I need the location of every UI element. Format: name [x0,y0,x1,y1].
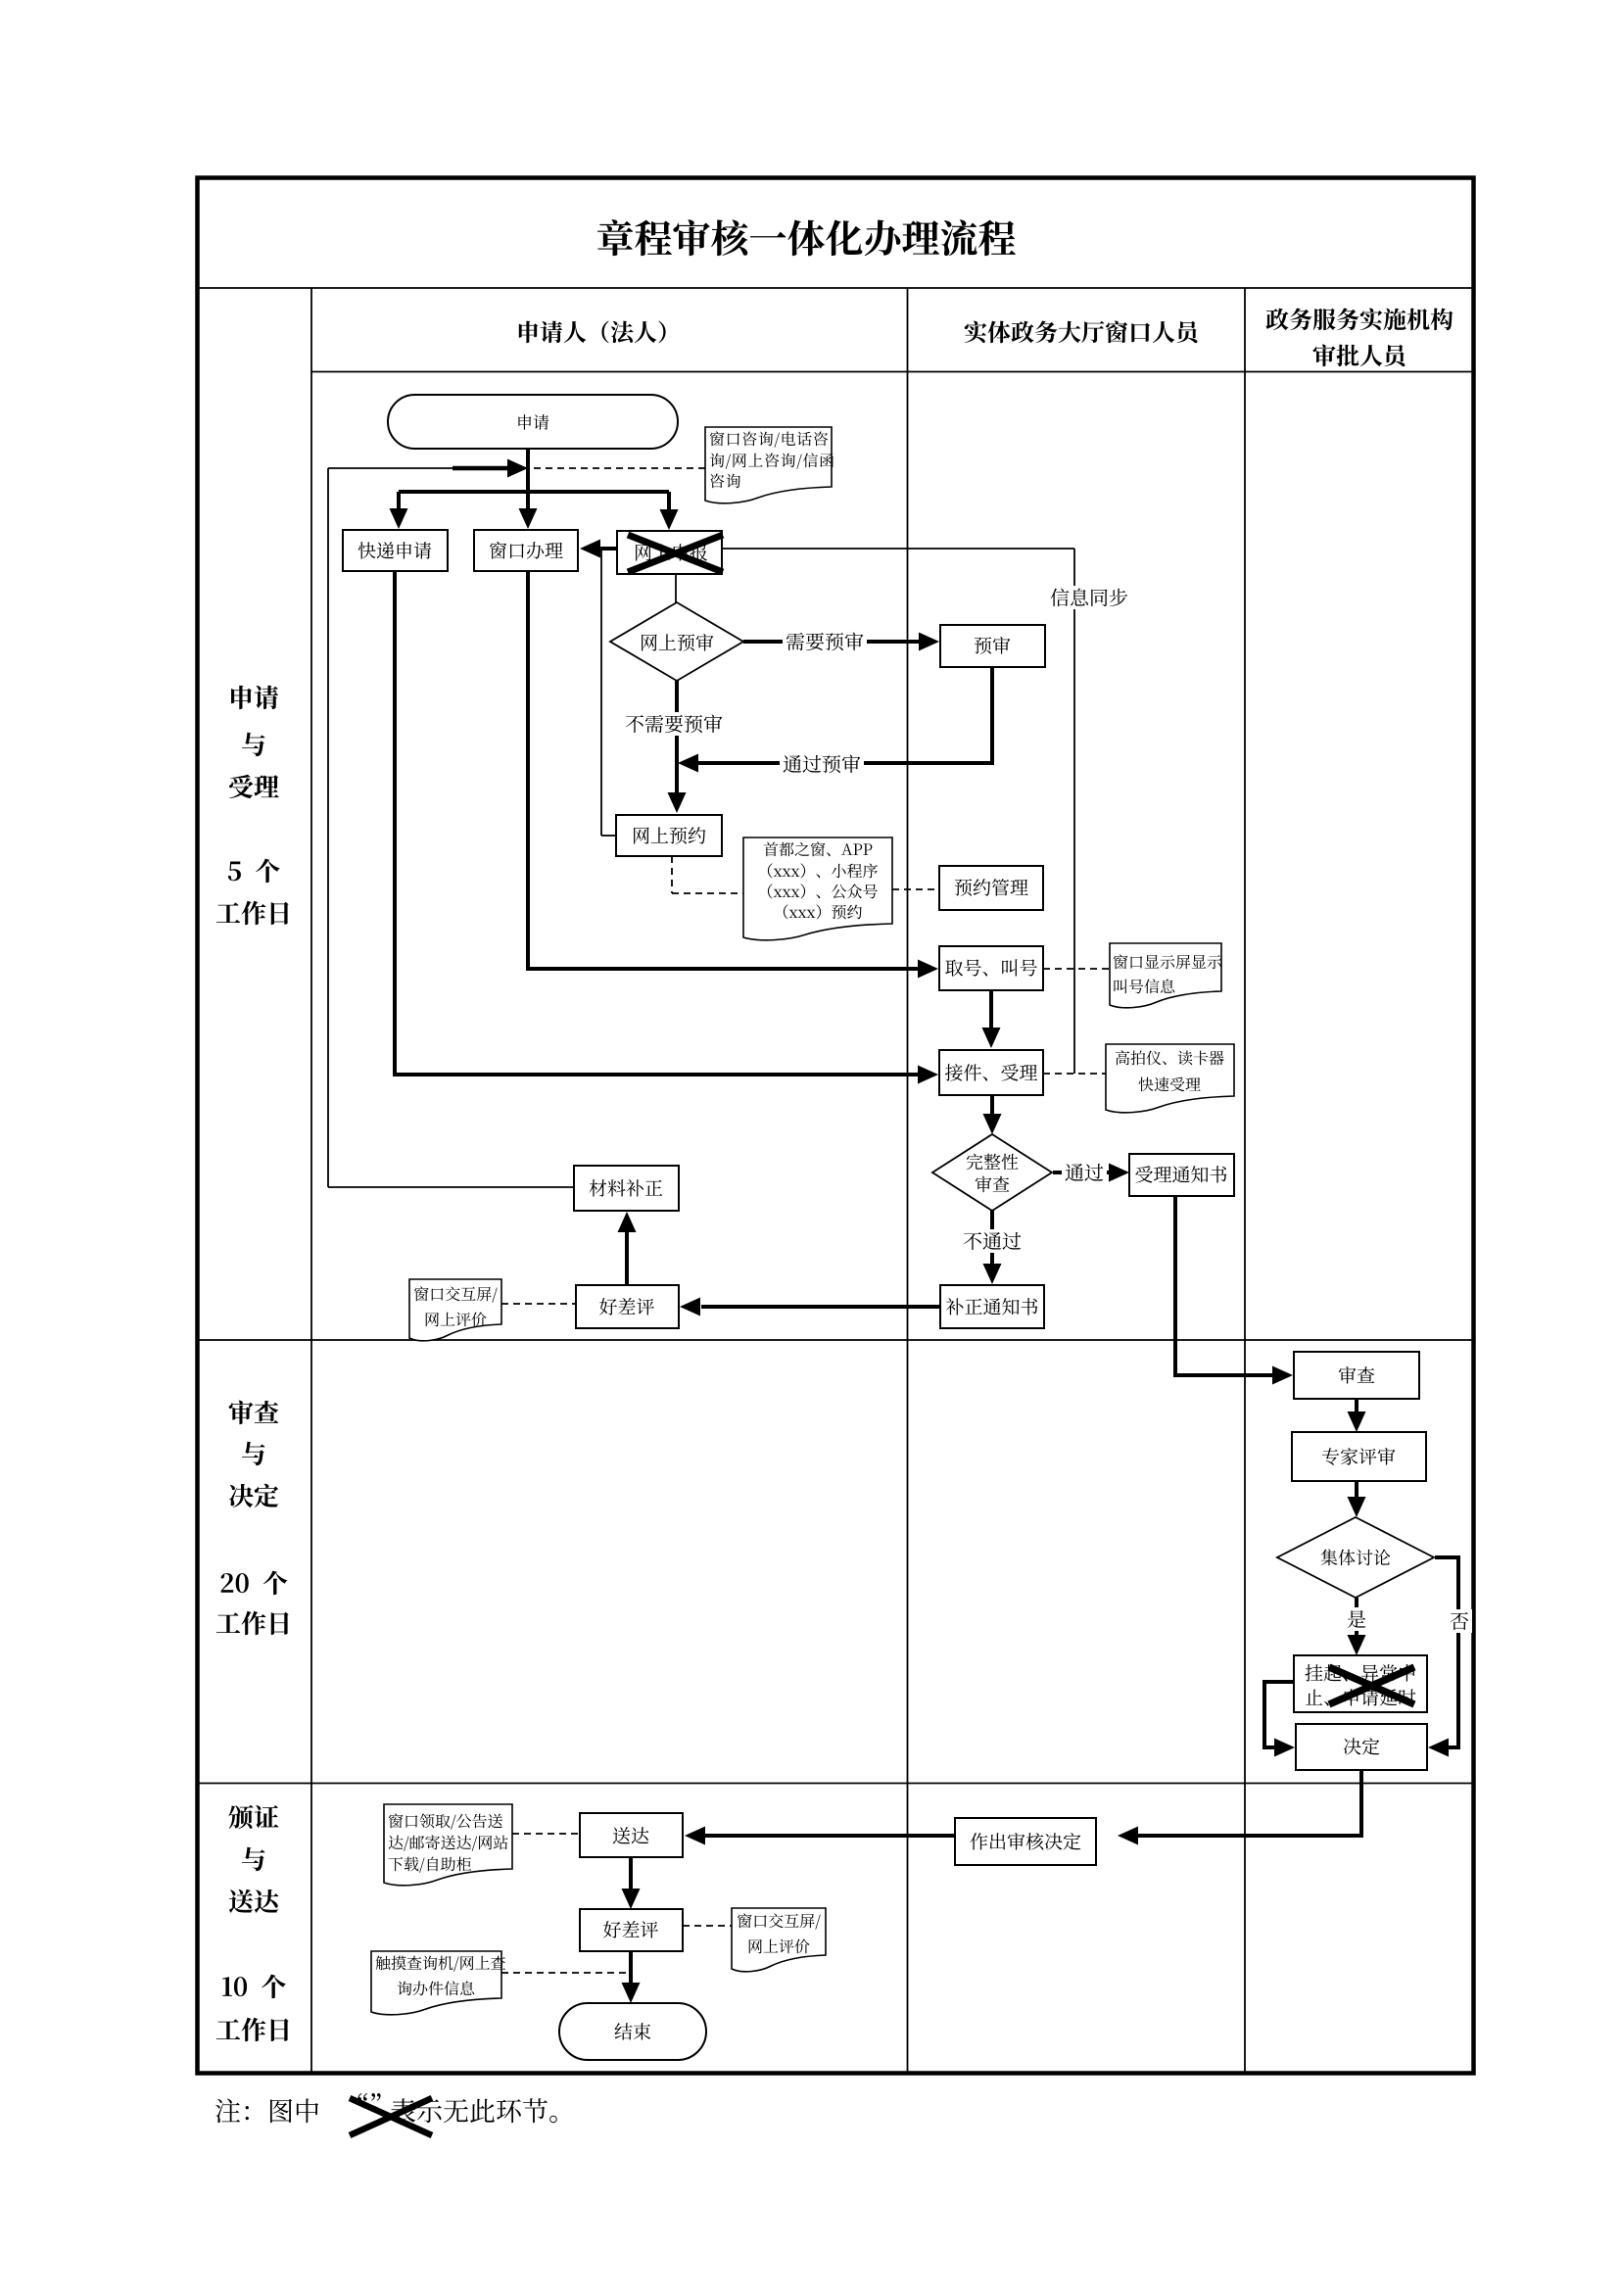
flow queue to accept [989,990,993,1028]
loop wire vertical [327,468,329,1187]
dashed booking wire to callout [672,892,743,894]
dashed wire to consult callout [534,467,705,469]
X cross over 网上申报 [628,535,723,572]
process 快递申请 [343,530,448,571]
lane boundary 2 [196,1783,1474,1785]
flow discuss yes [1355,1598,1358,1635]
flow need-precheck [743,640,919,644]
process 审查 [1294,1352,1419,1399]
flow eval to material-fix [625,1232,629,1285]
callout 窗口交互屏/网上评价 2 [732,1908,826,1972]
callout 窗口显示屏显示叫号信息 [1110,943,1221,1008]
process 受理通知书 [1129,1154,1234,1196]
callout 高拍仪、读卡器快速受理 [1106,1044,1234,1113]
flow declare to window [600,547,617,550]
process 好差评 2 [580,1909,683,1951]
flow drop to express [397,492,401,508]
flow accept to check [990,1095,994,1114]
dashed booking wire down [671,856,673,893]
X cross over 挂起 box [1329,1667,1414,1704]
decision 集体讨论 [1277,1517,1434,1598]
process 作出审核决定 [955,1818,1096,1865]
process 决定 [1296,1724,1427,1770]
end node 结束 [559,2003,706,2060]
loop return arrow shaft [453,466,507,471]
dashed accept to callout [1043,1073,1106,1075]
flow suspend loop [1264,1682,1294,1747]
flow drop to declare [667,492,671,509]
flow correction to eval [701,1305,939,1309]
flow apply down [526,449,530,508]
flow check pass [1053,1171,1109,1174]
flow acceptance to review [1175,1196,1272,1375]
loop wire to material-fix box [328,1186,574,1188]
process 材料补正 [574,1166,679,1211]
phase column divider [310,288,312,2073]
process 好差评 [576,1285,679,1328]
callout 窗口咨询/电话咨询/网上咨询/信函咨询 [705,427,832,503]
column divider 2-3 [1244,288,1246,2073]
start node 申请 [388,395,678,449]
process 窗口办理 [474,530,578,571]
process 挂起、异常中止、申请延时 (crossed out) [1294,1655,1427,1712]
process 网上预约 [616,815,722,856]
flow eval2 to end [629,1951,633,1983]
title separator line [196,287,1474,289]
flow express to accept [395,571,918,1075]
flow review to expert [1355,1399,1358,1411]
info sync wire vertical [1073,549,1075,1074]
outer frame [198,178,1474,2074]
flow discuss no [1435,1557,1458,1747]
process 预约管理 [939,866,1043,910]
flow branch line [399,490,669,494]
booking loop wire b [600,549,602,836]
flow result to delivery [705,1834,955,1838]
flow window to queue [528,571,918,969]
flow delivery to eval2 [629,1857,633,1889]
declare-to-diamond wire [675,574,677,602]
process 送达 [580,1813,683,1857]
flow expert to discuss [1355,1481,1358,1497]
callout 窗口交互屏/网上评价 [409,1279,501,1341]
flow precheck-pass [698,667,992,763]
X cross in legend note [350,2098,432,2135]
header bottom line [311,371,1474,373]
process 专家评审 [1292,1432,1426,1481]
dashed eval2 callout wire [683,1925,732,1927]
callout 窗口领取/公告送达/邮寄送达/网站下载/自助柜 [384,1804,512,1886]
flow decision to result [1138,1770,1361,1836]
flow check fail [990,1211,994,1264]
callout 触摸查询机/网上查询办件信息 [371,1951,501,2015]
dashed queue to callout [1043,968,1110,970]
decision 网上预审 [610,602,743,681]
process 接件、受理 [939,1050,1043,1095]
process 预审 [940,625,1045,667]
dashed eval callout wire [501,1303,576,1305]
process 取号、叫号 [939,946,1043,990]
lane boundary 1 [196,1339,1474,1341]
dashed delivery callout wire [512,1833,580,1835]
process 补正通知书 [940,1285,1044,1328]
booking loop wire a [601,835,616,837]
column divider 1-2 [907,288,909,2073]
info sync wire horizontal [722,548,1074,550]
decision 完整性审查 [932,1134,1052,1211]
process 网上申报 (crossed out) [617,531,722,574]
dashed callout to booking-mgmt [892,888,939,890]
flow no-precheck down [675,680,679,792]
dashed query callout wire [501,1972,629,1974]
loop return wire [328,467,453,469]
callout 首都之窗 APP 预约 [743,837,892,940]
